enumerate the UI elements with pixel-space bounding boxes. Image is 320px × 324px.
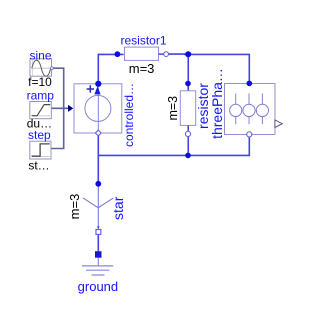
block step	[30, 141, 51, 159]
threePhase machine block	[225, 84, 283, 137]
svg-text:m=3: m=3	[67, 194, 82, 220]
svg-text:m=3: m=3	[129, 61, 155, 76]
wire: right column down to vertical resistor	[187, 54, 189, 90]
wire: controlled source bottom to star	[97, 136, 99, 184]
pin dot: star top	[95, 181, 101, 187]
pin dot: source top	[95, 81, 101, 87]
resistor resistor1	[125, 47, 189, 60]
block ramp	[30, 102, 52, 119]
wire: vertical resistor bottom to bottom run	[187, 137, 189, 156]
wire: resistor1 right to T junction	[184, 53, 188, 55]
svg-text:st…: st…	[28, 159, 49, 173]
wire: ramp output to arrow	[51, 107, 68, 109]
junction dot: resistor1 left	[115, 51, 121, 57]
input arrow into controlled source	[68, 105, 73, 111]
svg-text:threePha…: threePha…	[209, 68, 225, 139]
controlled voltage source U1	[74, 84, 122, 136]
svg-text:step: step	[28, 128, 51, 142]
pin dot: threePhase top	[247, 81, 253, 87]
wire: bottom run	[98, 137, 249, 156]
wire: top run to threePhase box	[188, 54, 249, 83]
star component	[83, 184, 113, 235]
svg-text:star: star	[110, 196, 126, 220]
wire: star to ground	[97, 234, 99, 251]
junction dot: top T	[185, 51, 191, 57]
svg-text:f=10: f=10	[28, 75, 52, 89]
block sine	[30, 59, 53, 76]
ground component	[82, 251, 113, 275]
svg-text:resistor1: resistor1	[120, 33, 166, 47]
pin dot: resistor top	[185, 81, 191, 87]
wire: sine output to bus	[53, 68, 64, 108]
svg-text:m=3: m=3	[166, 96, 180, 121]
svg-text:ground: ground	[78, 279, 118, 294]
svg-text:sine: sine	[29, 48, 51, 62]
svg-text:controlled…: controlled…	[122, 83, 136, 147]
wire: controlled source top to resistor1	[98, 54, 123, 83]
resistor (vertical)	[180, 91, 195, 137]
junction dot: bottom T	[185, 153, 191, 159]
svg-text:ramp: ramp	[27, 88, 55, 102]
wire: step output to bus	[51, 108, 64, 148]
